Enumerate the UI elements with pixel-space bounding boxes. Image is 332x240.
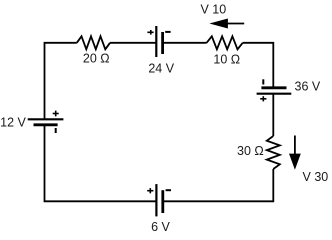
battery B4 12 V <box>28 119 64 125</box>
minus sign of 6 V <box>166 189 171 191</box>
wire top right of 24 V <box>163 42 207 44</box>
plus sign of 12 V <box>53 111 59 117</box>
arrow tail of V30 <box>294 136 296 157</box>
svg-text:30 Ω: 30 Ω <box>237 144 264 158</box>
battery B1 24 V <box>156 26 162 57</box>
svg-text:20 Ω: 20 Ω <box>83 52 110 66</box>
svg-text:24 V: 24 V <box>148 62 174 76</box>
resistor R2 10 ohm <box>207 36 243 49</box>
svg-text:V 10: V 10 <box>200 3 226 17</box>
plus sign of 36 V <box>260 96 266 101</box>
arrowhead of V10 <box>209 19 228 29</box>
battery B3 6 V <box>156 184 162 216</box>
svg-text:10 Ω: 10 Ω <box>213 53 240 67</box>
resistor R3 30 ohm <box>267 136 280 169</box>
wire bottom-left segment <box>45 125 157 202</box>
plus sign of 6 V <box>147 188 153 193</box>
svg-text:6 V: 6 V <box>151 220 170 233</box>
resistor R1 20 ohm <box>77 36 110 49</box>
minus sign of 36 V <box>262 79 264 84</box>
minus sign of 24 V <box>165 31 170 33</box>
battery B2 36 V <box>257 88 292 94</box>
wire right middle <box>272 94 274 136</box>
wire top middle <box>110 42 156 44</box>
arrow tail of V10 <box>227 23 245 25</box>
svg-text:12 V: 12 V <box>0 115 26 129</box>
minus sign of 12 V <box>55 128 57 133</box>
svg-text:36 V: 36 V <box>295 80 321 94</box>
plus sign of 24 V <box>147 30 153 35</box>
wire bottom-right corner <box>163 169 273 201</box>
arrowhead of V30 <box>289 154 301 170</box>
wire top-right corner <box>243 43 274 88</box>
wire top-left segment <box>45 43 77 120</box>
svg-text:V 30: V 30 <box>303 170 329 184</box>
